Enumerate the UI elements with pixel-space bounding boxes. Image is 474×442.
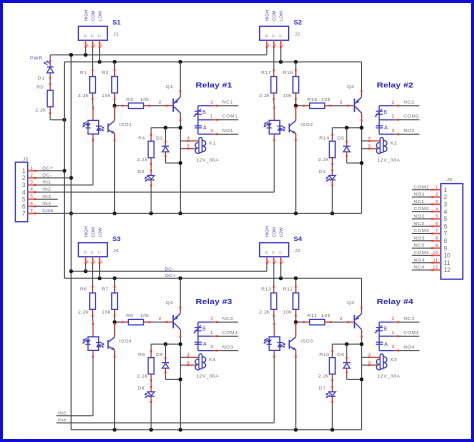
svg-text:10k: 10k	[321, 97, 330, 103]
svg-text:8: 8	[436, 236, 439, 241]
svg-text:1↓: 1↓	[100, 44, 104, 48]
wire DC- bottom rail	[71, 270, 267, 272]
svg-text:NC3: NC3	[222, 316, 233, 322]
relay contacts K1	[194, 106, 214, 135]
connector J5 pin 7 (Com)	[22, 208, 54, 218]
svg-text:COM: COM	[90, 10, 95, 21]
svg-text:4: 4	[187, 352, 190, 357]
net DC+ label	[165, 273, 176, 279]
svg-text:2↓: 2↓	[91, 34, 95, 38]
svg-text:DC-: DC-	[165, 266, 175, 272]
label Relay #3	[196, 297, 233, 306]
svg-text:R8: R8	[126, 313, 133, 319]
svg-text:2: 2	[30, 172, 33, 177]
net NO1	[211, 128, 239, 135]
connector J6 pin 4 (COM2)	[412, 206, 448, 216]
relay contacts K4	[194, 322, 214, 351]
svg-text:R1: R1	[80, 70, 87, 76]
svg-text:J6: J6	[447, 177, 453, 183]
wire IN4 stub	[36, 205, 58, 207]
relay coil K3 12V_30A	[362, 352, 401, 380]
svg-text:2↓: 2↓	[272, 34, 276, 38]
svg-text:R11: R11	[307, 313, 317, 319]
svg-text:NO3: NO3	[222, 344, 233, 350]
svg-text:10k: 10k	[140, 97, 149, 103]
svg-text:K3: K3	[390, 357, 397, 363]
connector J5 pin 1 (DC+)	[22, 165, 53, 175]
svg-text:R2: R2	[102, 70, 109, 76]
svg-text:4: 4	[368, 136, 371, 141]
junction	[294, 320, 298, 324]
svg-text:J4: J4	[113, 248, 119, 254]
junction	[63, 118, 67, 122]
wire DC+ vertical	[63, 62, 65, 278]
junction	[360, 378, 364, 382]
svg-text:R16: R16	[283, 70, 293, 76]
svg-text:1: 1	[211, 330, 214, 335]
svg-text:HIGH: HIGH	[83, 10, 88, 21]
svg-text:3↓: 3↓	[265, 250, 269, 254]
connector J6 pin 11 (NO4)	[412, 257, 451, 267]
junction	[113, 212, 334, 216]
svg-text:R12: R12	[283, 287, 293, 293]
svg-text:S4: S4	[294, 236, 303, 243]
junction	[179, 378, 183, 382]
svg-text:S1: S1	[112, 20, 121, 27]
junction	[360, 161, 364, 165]
wire	[332, 278, 361, 430]
svg-text:4: 4	[187, 136, 190, 141]
svg-text:NC2: NC2	[404, 100, 415, 106]
svg-text:1: 1	[436, 184, 439, 189]
optocoupler ISO4	[82, 316, 132, 357]
svg-text:4: 4	[436, 206, 439, 211]
relay contacts K3	[375, 322, 395, 351]
svg-text:6: 6	[436, 221, 439, 226]
svg-text:PWR: PWR	[30, 55, 43, 61]
wire	[166, 159, 181, 164]
svg-text:2: 2	[340, 99, 343, 104]
svg-text:COM3: COM3	[222, 330, 238, 336]
diode D6	[337, 344, 350, 375]
svg-text:5: 5	[436, 214, 439, 219]
connector J5	[15, 157, 28, 222]
diode D5	[337, 128, 350, 159]
optocoupler ISO1	[82, 100, 132, 141]
svg-text:2↓: 2↓	[91, 250, 95, 254]
svg-text:LOW: LOW	[279, 10, 284, 21]
junction	[164, 342, 183, 346]
svg-text:R15: R15	[307, 97, 317, 103]
LED D4	[319, 165, 336, 187]
junction	[63, 53, 298, 280]
connector J6 pin 7 (COM3)	[412, 228, 448, 238]
transistor Q4	[159, 300, 181, 337]
svg-text:1↓: 1↓	[98, 34, 102, 38]
wire DC- top rail	[50, 54, 267, 56]
svg-text:3↓: 3↓	[265, 34, 269, 38]
resistor R9 2.2k	[137, 344, 154, 381]
LED D8	[138, 381, 155, 403]
svg-text:J2: J2	[294, 32, 300, 38]
wire	[347, 375, 362, 380]
svg-text:2↓: 2↓	[274, 260, 278, 264]
wire	[267, 48, 281, 70]
resistor R13 2.2k	[259, 286, 276, 317]
svg-text:2: 2	[436, 192, 439, 197]
resistor R16 10k	[283, 62, 299, 100]
svg-text:10: 10	[444, 254, 451, 260]
connector J6 pin 8 (NO3)	[412, 235, 448, 245]
junction	[164, 126, 183, 130]
net COM1	[211, 113, 239, 120]
svg-text:3↓: 3↓	[84, 34, 88, 38]
svg-text:1↓: 1↓	[279, 250, 283, 254]
wire	[347, 159, 362, 164]
resistor R17 2.2k	[259, 69, 276, 100]
svg-text:K1: K1	[209, 141, 216, 147]
wire bottom Com bus	[71, 429, 362, 431]
connector J6 pin 10 (COM4)	[412, 250, 451, 260]
svg-text:3↓: 3↓	[86, 44, 90, 48]
svg-text:J3: J3	[294, 248, 300, 254]
svg-text:D8: D8	[138, 385, 145, 391]
connector S3 (J4)	[78, 226, 121, 264]
svg-text:HIGH: HIGH	[265, 226, 270, 237]
svg-text:D7: D7	[319, 385, 326, 391]
transistor Q2	[340, 84, 362, 121]
resistor R6 2.2k	[78, 286, 96, 317]
wire	[331, 321, 347, 323]
svg-text:12V_30A: 12V_30A	[196, 157, 219, 163]
svg-text:2.2k: 2.2k	[259, 309, 270, 315]
svg-text:Q1: Q1	[166, 84, 173, 90]
svg-text:A: A	[203, 125, 207, 131]
svg-text:10k: 10k	[140, 313, 149, 319]
svg-text:NO3: NO3	[414, 235, 425, 241]
resistor R3 10k	[122, 97, 151, 109]
svg-text:1: 1	[392, 330, 395, 335]
wire DC-	[36, 177, 71, 179]
junction	[113, 320, 117, 324]
resistor R7 10k	[102, 278, 118, 316]
wire	[150, 321, 166, 323]
wire	[86, 48, 100, 70]
svg-text:D4: D4	[319, 169, 326, 175]
transistor Q3	[340, 300, 362, 337]
connector S2 (J2)	[260, 10, 303, 48]
svg-text:NO4: NO4	[414, 257, 425, 263]
net COM2	[392, 113, 420, 120]
net NC3	[211, 316, 239, 323]
svg-text:10k: 10k	[283, 309, 292, 315]
svg-text:1↓: 1↓	[100, 260, 104, 264]
svg-text:D3: D3	[138, 169, 145, 175]
svg-text:B: B	[384, 110, 388, 116]
svg-text:R13: R13	[261, 287, 271, 293]
svg-text:NO4: NO4	[404, 344, 415, 350]
net COM3	[211, 330, 239, 337]
connector S4 (J3)	[260, 226, 303, 264]
connector J6 pin 6 (NC2)	[412, 221, 448, 231]
svg-text:11: 11	[433, 257, 438, 262]
svg-text:2↓: 2↓	[272, 250, 276, 254]
wire	[296, 100, 303, 106]
svg-text:NC1: NC1	[414, 199, 425, 205]
svg-text:12: 12	[444, 268, 451, 274]
svg-text:3↓: 3↓	[84, 250, 88, 254]
svg-text:Relay #3: Relay #3	[196, 297, 233, 306]
svg-text:J5: J5	[23, 157, 29, 163]
svg-text:10k: 10k	[283, 93, 292, 99]
svg-text:10k: 10k	[102, 93, 111, 99]
label Relay #4	[377, 297, 414, 306]
svg-text:HIGH: HIGH	[265, 10, 270, 21]
svg-text:K4: K4	[209, 357, 216, 363]
svg-text:B: B	[384, 326, 388, 332]
svg-text:1↓: 1↓	[279, 34, 283, 38]
svg-text:R14: R14	[319, 135, 329, 141]
resistor R15 10k	[303, 97, 332, 109]
junction	[345, 126, 364, 130]
svg-text:NC4: NC4	[404, 316, 415, 322]
relay coil K1 12V_30A	[180, 136, 219, 164]
svg-text:B: B	[202, 326, 206, 332]
svg-text:Relay #4: Relay #4	[377, 297, 414, 306]
svg-text:2↓: 2↓	[93, 260, 97, 264]
wire	[331, 187, 333, 214]
connector S1 (J1)	[78, 10, 121, 48]
svg-text:7: 7	[436, 228, 439, 233]
svg-text:J1: J1	[113, 32, 119, 38]
svg-text:LOW: LOW	[97, 226, 102, 237]
svg-text:1↓: 1↓	[281, 44, 285, 48]
svg-text:1↓: 1↓	[281, 260, 285, 264]
svg-text:NO2: NO2	[414, 214, 425, 220]
connector J5 pin 6 (IN4)	[22, 201, 51, 211]
svg-text:2.2k: 2.2k	[318, 373, 329, 379]
relay coil K4 12V_30A	[180, 352, 219, 380]
svg-text:COM: COM	[272, 227, 277, 238]
svg-text:Q2: Q2	[347, 84, 354, 90]
svg-text:3: 3	[436, 199, 439, 204]
wire	[267, 264, 281, 286]
svg-text:Relay #2: Relay #2	[377, 81, 414, 90]
svg-text:12: 12	[433, 265, 439, 270]
connector J6 pin 2 (NO1)	[412, 192, 448, 202]
connector J5 pin 2 (DC-)	[22, 172, 52, 182]
svg-text:2: 2	[211, 99, 214, 104]
svg-text:5: 5	[187, 144, 190, 149]
wire IN3 stub	[36, 198, 58, 200]
junction	[179, 161, 183, 165]
svg-text:NC2: NC2	[414, 221, 425, 227]
svg-text:3: 3	[211, 128, 214, 133]
svg-text:B: B	[202, 110, 206, 116]
svg-text:LOW: LOW	[97, 10, 102, 21]
svg-text:3: 3	[392, 128, 395, 133]
net NO2	[392, 128, 420, 135]
svg-text:NC4: NC4	[414, 265, 425, 271]
wire DC+	[36, 170, 65, 172]
net PWR label	[30, 55, 43, 61]
svg-text:2: 2	[340, 316, 343, 321]
svg-text:NC3: NC3	[414, 243, 425, 249]
wire	[86, 264, 100, 286]
net DC- label	[165, 266, 175, 272]
svg-text:2.2k: 2.2k	[137, 373, 148, 379]
svg-text:R9: R9	[138, 352, 145, 358]
wire	[295, 141, 297, 213]
svg-text:5: 5	[187, 360, 190, 365]
relay coil K2 12V_30A	[362, 136, 401, 164]
wire IN1	[36, 141, 93, 185]
resistor R12 10k	[283, 278, 299, 316]
wire	[114, 357, 116, 429]
connector J5 pin 3 (IN1)	[22, 180, 51, 190]
junction	[113, 428, 334, 432]
svg-text:COM1: COM1	[222, 114, 238, 120]
wire DC- vertical	[70, 55, 72, 430]
svg-text:10k: 10k	[321, 313, 330, 319]
junction	[113, 104, 117, 108]
svg-text:2.2k: 2.2k	[78, 309, 89, 315]
svg-text:ISO4: ISO4	[119, 338, 132, 344]
diode D9	[156, 344, 169, 375]
connector J5 pin 4 (IN2)	[22, 187, 51, 197]
svg-text:6: 6	[30, 201, 33, 206]
svg-text:3: 3	[30, 180, 33, 185]
svg-text:D2: D2	[156, 135, 163, 141]
svg-text:2.2k: 2.2k	[137, 157, 148, 163]
connector J6 pin 9 (NC3)	[412, 243, 448, 253]
svg-text:3: 3	[392, 344, 395, 349]
svg-text:A: A	[384, 125, 388, 131]
svg-text:1: 1	[211, 113, 214, 118]
wire	[166, 375, 181, 380]
svg-text:4: 4	[368, 352, 371, 357]
svg-text:S2: S2	[294, 20, 303, 27]
connector J6 pin 1 (COM1)	[412, 184, 448, 194]
svg-text:COM2: COM2	[404, 114, 420, 120]
net COM4	[392, 330, 420, 337]
wire	[332, 62, 361, 214]
svg-text:10: 10	[433, 250, 439, 255]
svg-text:HIGH: HIGH	[83, 226, 88, 237]
svg-text:Q3: Q3	[347, 300, 354, 306]
svg-text:2.2k: 2.2k	[259, 93, 270, 99]
svg-text:5: 5	[30, 194, 33, 199]
svg-text:2: 2	[211, 316, 214, 321]
wire	[151, 62, 180, 214]
wire	[150, 187, 152, 214]
junction	[345, 342, 364, 346]
svg-text:NO1: NO1	[414, 192, 425, 198]
svg-text:S3: S3	[112, 236, 121, 243]
svg-text:1: 1	[392, 113, 395, 118]
svg-text:R3: R3	[126, 97, 133, 103]
relay contacts K2	[375, 106, 395, 135]
svg-text:11: 11	[444, 261, 451, 267]
svg-text:R17: R17	[261, 70, 271, 76]
svg-text:2: 2	[159, 99, 162, 104]
resistor R8 10k	[122, 313, 151, 325]
svg-text:5: 5	[368, 144, 371, 149]
svg-text:COM1: COM1	[414, 184, 430, 190]
wire	[331, 403, 333, 430]
svg-text:Relay #1: Relay #1	[196, 81, 233, 90]
svg-text:COM2: COM2	[414, 206, 430, 212]
resistor R4 2.2k	[137, 128, 154, 165]
svg-text:NO1: NO1	[222, 128, 233, 134]
connector J6	[441, 177, 463, 279]
svg-text:10k: 10k	[102, 309, 111, 315]
wire	[331, 105, 347, 107]
svg-text:3↓: 3↓	[267, 260, 271, 264]
svg-text:3: 3	[211, 344, 214, 349]
svg-text:ISO2: ISO2	[301, 122, 314, 128]
junction	[294, 104, 298, 108]
svg-text:D6: D6	[337, 352, 344, 358]
net NC1	[211, 99, 239, 106]
resistor R14 2.2k	[318, 128, 335, 165]
wire	[114, 141, 116, 213]
resistor R10 2.2k	[318, 344, 335, 381]
net NC4	[392, 316, 420, 323]
svg-text:2: 2	[159, 316, 162, 321]
optocoupler ISO2	[263, 100, 313, 141]
LED D3	[138, 165, 155, 187]
wire	[50, 114, 64, 120]
wire DC+ bottom rail	[64, 277, 361, 279]
net NC2	[392, 99, 420, 106]
svg-text:NC1: NC1	[222, 100, 233, 106]
svg-text:R10: R10	[319, 352, 329, 358]
net IN4	[56, 357, 274, 423]
net NO4	[392, 344, 420, 351]
svg-text:COM3: COM3	[414, 228, 430, 234]
svg-text:3↓: 3↓	[86, 260, 90, 264]
svg-text:2.2k: 2.2k	[318, 157, 329, 163]
svg-text:2: 2	[392, 316, 395, 321]
svg-text:7: 7	[30, 208, 33, 213]
wire	[115, 100, 122, 106]
svg-text:D1: D1	[38, 76, 45, 82]
svg-text:NO2: NO2	[404, 128, 415, 134]
svg-text:2↓: 2↓	[274, 44, 278, 48]
wire	[150, 403, 152, 430]
wire	[115, 316, 122, 322]
svg-text:2.2k: 2.2k	[35, 107, 46, 113]
resistor R2 10k	[102, 62, 118, 100]
svg-text:COM: COM	[90, 227, 95, 238]
svg-text:4: 4	[30, 187, 33, 192]
svg-text:2: 2	[392, 99, 395, 104]
svg-text:5: 5	[368, 360, 371, 365]
svg-text:ISO1: ISO1	[119, 122, 132, 128]
wire	[150, 105, 166, 107]
svg-text:Q4: Q4	[166, 300, 173, 306]
net IN3	[56, 357, 93, 416]
svg-text:COM4: COM4	[414, 250, 430, 256]
connector J5 pin 5 (IN3)	[22, 194, 51, 204]
optocoupler ISO3	[263, 316, 313, 357]
resistor R11 10k	[303, 313, 332, 325]
svg-text:LOW: LOW	[279, 226, 284, 237]
svg-text:COM: COM	[272, 10, 277, 21]
svg-text:12V_30A: 12V_30A	[377, 157, 400, 163]
svg-text:9: 9	[436, 243, 439, 248]
